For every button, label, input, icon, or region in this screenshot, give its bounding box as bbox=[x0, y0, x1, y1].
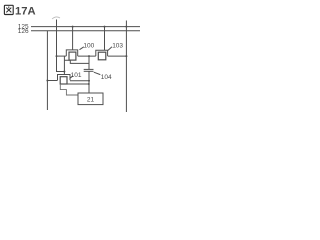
svg-text:21: 21 bbox=[87, 96, 95, 103]
svg-text:103: 103 bbox=[112, 42, 123, 49]
svg-text:17A: 17A bbox=[15, 5, 36, 17]
svg-text:126: 126 bbox=[18, 28, 29, 35]
svg-text:101: 101 bbox=[71, 72, 82, 79]
svg-text:100: 100 bbox=[83, 42, 94, 49]
svg-text:104: 104 bbox=[101, 74, 112, 81]
